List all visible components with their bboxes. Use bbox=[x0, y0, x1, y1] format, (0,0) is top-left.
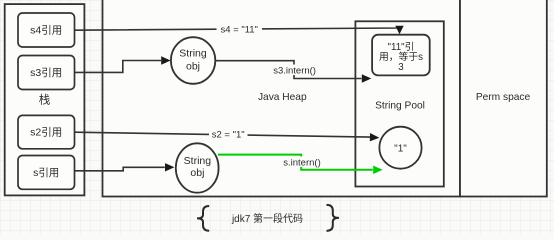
wire s.intern() green bbox=[218, 155, 373, 170]
node s2引用 bbox=[18, 115, 75, 148]
svg-text:s引用: s引用 bbox=[33, 166, 59, 179]
left curly brace bbox=[197, 206, 209, 231]
svg-text:s4 = "11": s4 = "11" bbox=[220, 24, 257, 35]
node "11"引用 rounded box bbox=[372, 35, 430, 76]
wire s3.intern() bbox=[216, 61, 362, 79]
wire s3 -> String obj (top) bbox=[75, 61, 162, 73]
svg-text:String Pool: String Pool bbox=[375, 100, 425, 111]
node s4引用 bbox=[18, 13, 75, 47]
svg-text:Perm space: Perm space bbox=[476, 92, 531, 103]
Perm space box bbox=[460, 0, 547, 197]
svg-text:s2引用: s2引用 bbox=[30, 126, 62, 139]
svg-text:s.intern(): s.intern() bbox=[283, 157, 320, 168]
svg-text:栈: 栈 bbox=[39, 93, 51, 107]
String obj circle (top) U1 bbox=[171, 37, 215, 84]
svg-text:s2 = "1": s2 = "1" bbox=[212, 129, 245, 140]
stack outer box bbox=[5, 4, 85, 195]
node "1" circle bbox=[379, 127, 421, 169]
String obj circle (bottom) U2 bbox=[176, 143, 219, 192]
wire s4 -> string pool constant bbox=[75, 27, 400, 30]
wire s2 -> "1" circle bbox=[75, 132, 371, 137]
svg-text:String: String bbox=[179, 48, 207, 60]
svg-text:3: 3 bbox=[398, 62, 404, 73]
String Pool box bbox=[355, 21, 443, 186]
svg-text:obj: obj bbox=[190, 167, 204, 179]
wire s -> String obj (bottom) bbox=[75, 167, 165, 171]
svg-text:s4引用: s4引用 bbox=[30, 24, 62, 37]
svg-text:s3.intern(): s3.intern() bbox=[273, 65, 316, 76]
svg-text:Java Heap: Java Heap bbox=[258, 92, 307, 103]
svg-text:String: String bbox=[184, 155, 212, 167]
svg-text:jdk7 第一段代码: jdk7 第一段代码 bbox=[231, 212, 303, 225]
node s引用 bbox=[18, 156, 75, 190]
node s3引用 bbox=[18, 56, 75, 90]
svg-text:"1": "1" bbox=[394, 144, 407, 155]
right curly brace bbox=[327, 205, 340, 231]
Java Heap box bbox=[103, 0, 461, 197]
svg-text:s3引用: s3引用 bbox=[30, 66, 62, 79]
svg-text:obj: obj bbox=[186, 61, 200, 73]
